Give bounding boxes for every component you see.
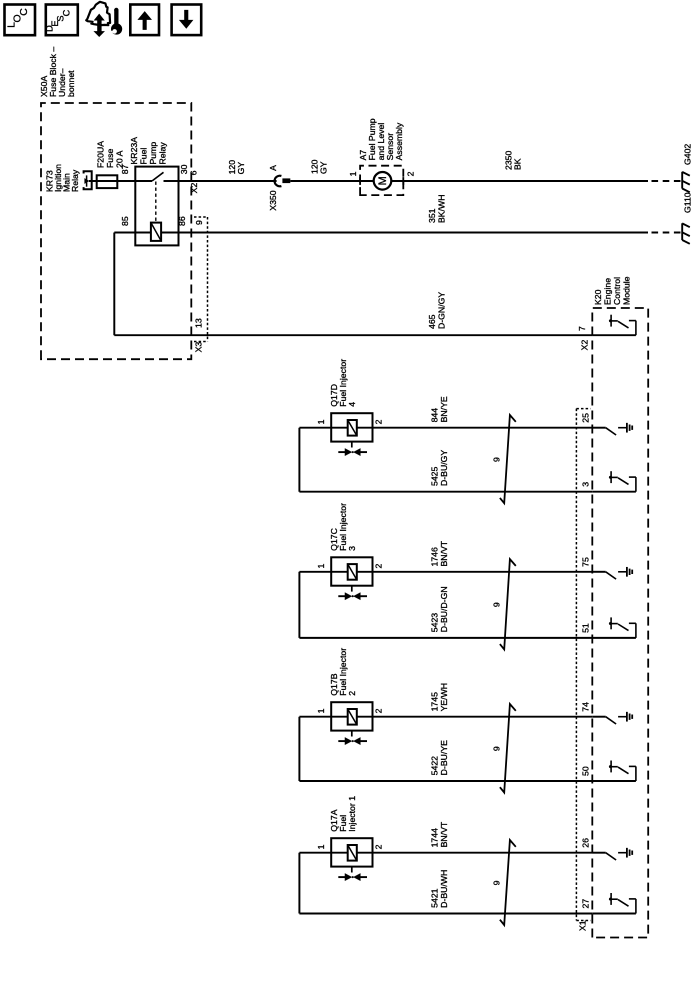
wire 5422 D-BU/YE: [299, 780, 592, 782]
pump pin ticks: [360, 177, 403, 185]
svg-text:GY: GY: [236, 162, 246, 175]
svg-text:1746: 1746: [430, 547, 440, 566]
svg-text:1: 1: [316, 708, 326, 713]
injector Q17A label: [329, 796, 357, 832]
svg-text:13: 13: [194, 318, 204, 328]
wire loop Q17B pin1: [298, 717, 300, 781]
injector Q17C solenoid: [348, 564, 357, 580]
ground G402 symbol: [682, 172, 690, 193]
pin 9 label: [194, 220, 204, 225]
svg-text:25: 25: [581, 413, 591, 423]
wire 120 GY relay to splice: [179, 180, 277, 182]
svg-text:X350: X350: [268, 190, 278, 210]
svg-text:X3: X3: [194, 342, 204, 353]
label 9 conductor Q17C: [492, 602, 502, 607]
relay switch contact: [135, 172, 178, 181]
wire 351 BK/WH: [179, 232, 649, 234]
svg-text:X2: X2: [189, 183, 199, 194]
svg-text:465: 465: [427, 314, 437, 329]
svg-text:2: 2: [374, 564, 384, 569]
pin 86 label: [177, 216, 187, 226]
wire loop Q17A pin1: [298, 853, 300, 914]
wire 465 D-GN/GY: [114, 334, 592, 336]
driver symbol pin 51: [592, 617, 636, 638]
ground G110 symbol: [682, 223, 690, 244]
fuel pump A7 dashed box: [360, 166, 403, 195]
label 351 BK/WH: [427, 195, 447, 223]
svg-text:1: 1: [316, 844, 326, 849]
svg-text:Fuel Injector: Fuel Injector: [338, 503, 348, 551]
cable slash mark Q17A: [500, 840, 516, 925]
connector X2 label at ECM: [580, 340, 590, 351]
svg-text:D-BU/D-GN: D-BU/D-GN: [439, 586, 449, 632]
label wire 844: [430, 396, 450, 422]
connector X2 label: [189, 183, 199, 194]
svg-text:50: 50: [581, 766, 591, 776]
label 9 conductor Q17D: [492, 457, 502, 462]
label wire 5423: [430, 586, 450, 632]
svg-text:BN/VT: BN/VT: [439, 540, 449, 566]
injector Q17A solenoid: [348, 845, 357, 861]
svg-text:351: 351: [427, 208, 437, 223]
splice X350 symbol: [275, 176, 291, 187]
fuse block X50A dashed enclosure: [41, 103, 191, 359]
svg-text:M: M: [377, 176, 389, 185]
injector Q17A box: [331, 838, 372, 866]
toolbar page-down button: [172, 5, 202, 36]
pin 3 label: [581, 482, 591, 487]
injector Q17C pin 1 label: [316, 564, 326, 569]
svg-text:Fuse: Fuse: [105, 149, 115, 168]
svg-text:D-GN/GY: D-GN/GY: [437, 292, 447, 329]
svg-text:K20: K20: [593, 289, 603, 305]
svg-text:BN/VT: BN/VT: [439, 821, 449, 847]
svg-text:6: 6: [189, 170, 199, 175]
svg-text:Engine: Engine: [603, 278, 613, 305]
injector Q17D label: [329, 359, 357, 407]
label wire 1746: [430, 540, 450, 566]
svg-text:3: 3: [347, 546, 357, 551]
svg-text:Injector 1: Injector 1: [347, 796, 357, 832]
injector Q17D box: [331, 413, 372, 441]
svg-text:G402: G402: [683, 144, 693, 165]
wire 5423 D-BU/D-GN: [299, 637, 592, 639]
svg-text:27: 27: [581, 899, 591, 909]
injector Q17A nozzle symbol: [338, 867, 367, 881]
injector Q17D nozzle symbol: [338, 442, 367, 456]
svg-text:C: C: [19, 8, 30, 16]
label K20 Engine Control Module: [593, 276, 632, 305]
svg-text:5425: 5425: [430, 467, 440, 486]
svg-text:D-BU/GY: D-BU/GY: [439, 450, 449, 486]
toolbar pan-zoom tool icon: [86, 2, 122, 36]
svg-text:Fuel: Fuel: [139, 148, 149, 165]
splice X350 label: [268, 190, 278, 210]
svg-text:3: 3: [581, 482, 591, 487]
injector Q17C wire through: [299, 571, 592, 573]
injector Q17A pin 2 label: [374, 844, 384, 849]
injector Q17B solenoid: [348, 709, 357, 725]
label wire 5421: [430, 870, 450, 908]
svg-text:2: 2: [374, 419, 384, 424]
driver symbol pin 50: [592, 761, 636, 782]
cable slash mark Q17B: [500, 704, 516, 793]
switch-to-ground symbol pin 74: [592, 712, 632, 724]
pin 74 label: [581, 702, 591, 712]
motor M symbol: [374, 172, 392, 190]
injector Q17C label: [329, 503, 357, 551]
pin 87 label: [120, 164, 130, 174]
wire 5425 D-BU/GY: [299, 491, 592, 493]
pin 27 label: [581, 899, 591, 909]
svg-text:4: 4: [347, 402, 357, 407]
svg-text:9: 9: [492, 457, 502, 462]
dashed wire to G402: [652, 180, 682, 182]
pin 50 label: [581, 766, 591, 776]
relay KR23A box: [135, 167, 178, 246]
svg-text:86: 86: [177, 216, 187, 226]
svg-text:Module: Module: [622, 276, 632, 305]
wire loop Q17D pin1: [298, 428, 300, 492]
label X50A Fuse Block: [39, 47, 76, 97]
label 120 GY second: [310, 159, 329, 174]
label 9 conductor Q17A: [492, 880, 502, 885]
label wire 5422: [430, 740, 450, 775]
svg-text:Relay: Relay: [158, 142, 168, 165]
injector Q17B nozzle symbol: [338, 731, 367, 745]
svg-text:X1: X1: [578, 920, 588, 931]
svg-text:KR23A: KR23A: [129, 137, 139, 165]
ground G110 label: [683, 192, 693, 213]
pump pin 1 label: [348, 171, 358, 176]
pin 6 label: [189, 170, 199, 175]
pin 51 label: [581, 623, 591, 633]
svg-text:9: 9: [492, 746, 502, 751]
svg-text:G110: G110: [683, 192, 693, 213]
svg-text:5421: 5421: [430, 888, 440, 907]
svg-text:YE/WH: YE/WH: [439, 683, 449, 711]
injector Q17D pin 1 label: [316, 419, 326, 424]
svg-text:Control: Control: [612, 277, 622, 305]
pin 85 label: [120, 216, 130, 226]
injector Q17B box: [331, 702, 372, 730]
svg-text:Pump: Pump: [148, 142, 158, 165]
switch-to-ground symbol pin 75: [592, 567, 632, 579]
fuse F20UA: [97, 175, 118, 188]
svg-text:BK: BK: [513, 158, 523, 170]
pin 7 label: [577, 326, 587, 331]
connector X1 label: [578, 920, 588, 931]
connector X2/X3 dotted bracket: [194, 217, 208, 342]
svg-text:9: 9: [194, 220, 204, 225]
svg-text:bonnet: bonnet: [66, 70, 76, 97]
svg-text:2: 2: [406, 171, 416, 176]
switch-to-ground symbol pin 26: [592, 848, 632, 860]
wire loop Q17C pin1: [298, 572, 300, 638]
svg-text:844: 844: [430, 408, 440, 423]
svg-text:Relay: Relay: [70, 169, 80, 192]
svg-text:Fuel Injector: Fuel Injector: [338, 359, 348, 407]
driver symbol pin 27: [592, 893, 636, 914]
driver symbol pin 7: [592, 315, 636, 336]
svg-text:X2: X2: [580, 340, 590, 351]
pin 75 label: [581, 557, 591, 567]
svg-text:7: 7: [577, 326, 587, 331]
injector Q17A pin 1 label: [316, 844, 326, 849]
svg-text:9: 9: [492, 880, 502, 885]
svg-text:2: 2: [374, 708, 384, 713]
label wire 1745: [430, 683, 450, 711]
svg-text:D-BU/YE: D-BU/YE: [439, 740, 449, 775]
pin 30 label: [179, 164, 189, 174]
svg-text:5423: 5423: [430, 613, 440, 632]
svg-text:26: 26: [581, 838, 591, 848]
injector Q17B label: [329, 648, 357, 696]
label KR23A Fuel Pump Relay: [129, 137, 168, 165]
svg-text:BN/YE: BN/YE: [439, 396, 449, 422]
svg-text:Assembly: Assembly: [394, 122, 404, 160]
switch-to-ground symbol pin 25: [592, 423, 632, 435]
label wire 1744: [430, 821, 450, 847]
svg-text:1: 1: [316, 564, 326, 569]
label KR73 Ignition Main Relay: [45, 164, 81, 192]
svg-text:A: A: [268, 165, 278, 171]
cable slash mark Q17C: [500, 559, 516, 649]
splice branch A label: [268, 165, 278, 171]
label 120 GY first: [227, 160, 246, 175]
svg-text:5422: 5422: [430, 756, 440, 775]
toolbar page-up button: [130, 5, 159, 36]
injector Q17C nozzle symbol: [338, 586, 367, 600]
injector Q17D solenoid: [348, 420, 357, 436]
wire 120 GY splice to pump: [290, 180, 373, 182]
wire 5421 D-BU/WH: [299, 913, 592, 915]
injector Q17B pin 2 label: [374, 708, 384, 713]
injector Q17D wire through: [299, 427, 592, 429]
svg-text:D-BU/WH: D-BU/WH: [439, 870, 449, 908]
svg-text:1: 1: [348, 171, 358, 176]
svg-text:51: 51: [581, 623, 591, 633]
wire 2350 BK: [391, 180, 648, 182]
connector X1 dotted bracket: [576, 409, 590, 921]
svg-text:2: 2: [347, 691, 357, 696]
toolbar LOC button: [5, 5, 36, 36]
relay actuator dashed link: [155, 182, 157, 223]
relay KR73 symbol: [84, 171, 92, 189]
svg-text:1: 1: [316, 419, 326, 424]
svg-text:F20UA: F20UA: [96, 141, 106, 168]
injector Q17A wire through: [299, 852, 592, 854]
wire pin 85 to node: [114, 233, 135, 336]
svg-text:74: 74: [581, 702, 591, 712]
label A7 Fuel Pump and Level Sensor Assembly: [358, 118, 404, 160]
injector Q17B pin 1 label: [316, 708, 326, 713]
svg-text:85: 85: [120, 216, 130, 226]
svg-text:9: 9: [492, 602, 502, 607]
svg-text:2: 2: [374, 844, 384, 849]
label 9 conductor Q17B: [492, 746, 502, 751]
label 465 D-GN/GY: [427, 292, 447, 329]
svg-text:BK/WH: BK/WH: [437, 195, 447, 223]
injector Q17C pin 2 label: [374, 564, 384, 569]
pump pin 2 label: [406, 171, 416, 176]
driver symbol pin 3: [592, 471, 636, 492]
label wire 5425: [430, 450, 450, 486]
svg-text:1745: 1745: [430, 692, 440, 711]
dashed wire to G110: [652, 232, 682, 234]
ground G402 label: [683, 144, 693, 165]
injector Q17C box: [331, 557, 372, 585]
svg-text:75: 75: [581, 557, 591, 567]
wire KR73 to fuse to KR23A: [89, 180, 135, 182]
pin 25 label: [581, 413, 591, 423]
cable slash mark Q17D: [500, 415, 516, 503]
svg-text:GY: GY: [318, 161, 328, 174]
svg-text:C: C: [62, 9, 72, 16]
injector Q17B wire through: [299, 716, 592, 718]
svg-text:Fuel Injector: Fuel Injector: [338, 648, 348, 696]
label 2350 BK: [504, 151, 523, 170]
pin 26 label: [581, 838, 591, 848]
svg-text:87: 87: [120, 164, 130, 174]
connector X3 label: [194, 342, 204, 353]
svg-text:1744: 1744: [430, 828, 440, 847]
relay coil: [135, 223, 178, 241]
label F20UA Fuse 20 A: [96, 141, 125, 168]
toolbar DESC button: [45, 5, 78, 36]
pin 13 label: [194, 318, 204, 328]
module K20 dashed box: [592, 308, 648, 938]
injector Q17D pin 2 label: [374, 419, 384, 424]
